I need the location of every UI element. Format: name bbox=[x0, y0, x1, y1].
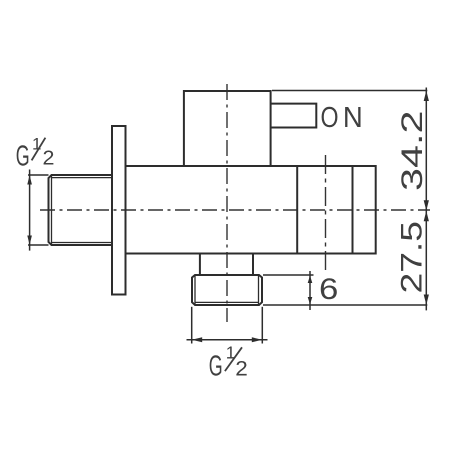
svg-text:G: G bbox=[16, 140, 30, 172]
svg-text:N: N bbox=[343, 100, 363, 133]
svg-text:6: 6 bbox=[319, 272, 338, 305]
svg-text:27.5: 27.5 bbox=[396, 221, 429, 294]
svg-text:G: G bbox=[209, 350, 223, 382]
svg-text:2: 2 bbox=[43, 147, 55, 169]
svg-text:34.2: 34.2 bbox=[396, 111, 429, 192]
svg-text:2: 2 bbox=[235, 356, 248, 380]
svg-text:O: O bbox=[321, 100, 339, 133]
